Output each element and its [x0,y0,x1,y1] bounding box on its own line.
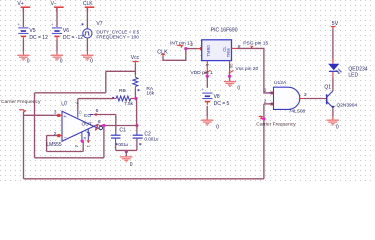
svg-text:V−: V− [51,1,57,7]
wire [86,7,88,29]
svg-text:18k: 18k [146,91,154,97]
wire [206,106,208,120]
wire [24,178,264,180]
pin VDD pin 1 [190,61,213,77]
svg-text:001u: 001u [118,142,128,147]
wire [34,93,36,158]
node CLK [83,1,94,12]
junction [262,117,265,120]
svg-text:+: + [63,114,66,120]
svg-text:Q1: Q1 [324,84,331,90]
wire [186,42,203,50]
ground [81,55,93,65]
pin Vss pin 20 [229,61,259,77]
pin 2 [54,131,62,137]
junction [125,150,128,153]
wire [96,114,115,116]
svg-text:VDD pin 1: VDD pin 1 [190,70,213,76]
junction [134,97,137,100]
svg-text:1: 1 [264,88,267,94]
ground [17,55,29,65]
wire [163,49,186,61]
svg-text:0: 0 [216,125,219,131]
wire [56,7,58,27]
svg-text:Vss pin 20: Vss pin 20 [235,66,258,72]
ground [327,120,339,131]
svg-text:−: − [64,135,67,141]
svg-text:0: 0 [60,59,63,65]
wire [46,136,48,152]
microcontroller U? PIC 16F690 [202,28,238,61]
pin 1 stub [86,129,91,148]
wire [47,135,59,137]
wire [35,157,104,159]
ground [51,55,63,65]
wire [56,40,58,55]
wire [77,99,79,118]
svg-text:0: 0 [130,162,133,168]
wire [229,76,231,81]
junction [206,75,209,78]
wire [105,71,107,93]
wire [332,108,334,120]
wire [125,150,127,156]
svg-text:CO: CO [84,113,92,119]
wire [103,126,105,158]
node CLK (PIC input) [157,49,168,56]
voltage source V5 [17,22,48,41]
wire [136,126,138,136]
LED D? QED234 [328,64,368,79]
timer internal glyphs [82,128,89,140]
wire [24,114,59,116]
ground [120,156,133,168]
svg-text:PIC 16F690: PIC 16F690 [211,28,238,34]
junction [184,47,187,50]
svg-text:3: 3 [54,109,57,115]
wire [23,112,25,179]
svg-text:PSG pin 15: PSG pin 15 [243,40,268,46]
svg-text:R: R [82,137,87,140]
svg-text:DC = 12: DC = 12 [29,35,48,41]
junction [228,75,231,78]
wire [106,70,136,72]
wire [116,139,137,151]
svg-text:OUT: OUT [82,122,92,128]
wire [115,115,117,136]
voltage probe marker [95,126,103,131]
svg-text:TRM: TRM [226,48,231,58]
resistor RA [133,77,155,96]
wire [304,98,326,100]
svg-text:7.5k: 7.5k [124,101,134,107]
pulse source V7 [82,21,140,39]
and-gate U12A 74LS08 [274,80,306,115]
wire [22,40,24,55]
pin 6 OUT [82,119,101,127]
capacitor C1 [111,128,129,147]
capacitor C2 [133,132,159,146]
svg-text:LM555: LM555 [46,142,62,148]
node INT pin 17 [170,40,193,48]
wire [136,99,138,126]
junction [102,124,105,127]
svg-text:6: 6 [238,44,241,50]
pin 2 [264,99,274,106]
node Vcc [131,55,140,64]
svg-text:U7: U7 [61,102,68,108]
transistor Q1 Q2N3904 [324,84,357,108]
svg-text:Q2N3904: Q2N3904 [337,102,358,108]
wire [99,125,137,127]
svg-text:V5: V5 [29,28,35,34]
voltage source V6 [51,22,83,41]
svg-text:2: 2 [54,131,57,137]
svg-text:DC = -12: DC = -12 [63,35,83,41]
svg-text:FREQUENCY = 100: FREQUENCY = 100 [96,34,139,39]
wire [22,7,24,27]
pin 3 [300,92,307,99]
wire [82,141,84,152]
ground [201,120,219,131]
svg-text:3: 3 [304,92,307,98]
ground [224,81,241,92]
node 5V [331,21,339,29]
wire [264,103,271,105]
svg-text:0: 0 [237,85,240,91]
svg-text:D: D [78,111,82,114]
svg-text:C1: C1 [119,128,126,134]
svg-text:0: 0 [27,59,30,65]
svg-text:CLK: CLK [83,1,93,7]
svg-text:TMR0: TMR0 [206,45,211,57]
wire [78,98,113,100]
op-amp style timer U7 LM555 [46,102,98,149]
svg-text:0: 0 [336,124,339,130]
svg-text:V8: V8 [214,94,220,100]
wire [332,72,334,91]
node Carrier Frequency [1,99,41,113]
wire [237,48,271,93]
svg-text:Vcc: Vcc [131,55,140,61]
grid background [0,0,375,183]
wire [332,29,334,64]
svg-text:2: 2 [190,42,193,48]
pin 4 stub [74,132,82,148]
pin 3 [54,109,62,117]
wire [47,151,84,153]
junction [135,124,138,127]
wire [134,64,136,77]
resistor RB [112,88,135,107]
node V- [51,1,64,12]
svg-text:LED: LED [348,73,358,79]
svg-text:0.001u: 0.001u [144,136,158,141]
voltage source V8 [201,87,229,107]
node Carrier Frequency (gate side) [256,116,296,128]
svg-text:5: 5 [96,108,99,114]
wire [263,104,265,179]
wire [134,89,136,99]
pin 1 [264,88,274,95]
svg-text:U12A: U12A [274,80,287,86]
wire [86,38,88,55]
svg-text:6: 6 [98,119,101,125]
wire [35,92,106,94]
svg-text:74LS08: 74LS08 [289,109,306,115]
junction [81,140,84,143]
svg-text:V+: V+ [17,1,23,7]
svg-text:DC = 5: DC = 5 [214,101,230,107]
svg-text:V6: V6 [63,28,69,34]
svg-text:20: 20 [229,63,234,68]
pin 5 CO [84,108,99,119]
node V+ [17,1,30,12]
pin 6 / PSO pin 15 [232,40,269,50]
svg-text:Carrier Frequency: Carrier Frequency [256,121,296,127]
svg-text:V7: V7 [96,21,102,27]
svg-text:0: 0 [90,59,93,65]
svg-text:RB: RB [119,88,126,94]
wire [206,76,208,88]
